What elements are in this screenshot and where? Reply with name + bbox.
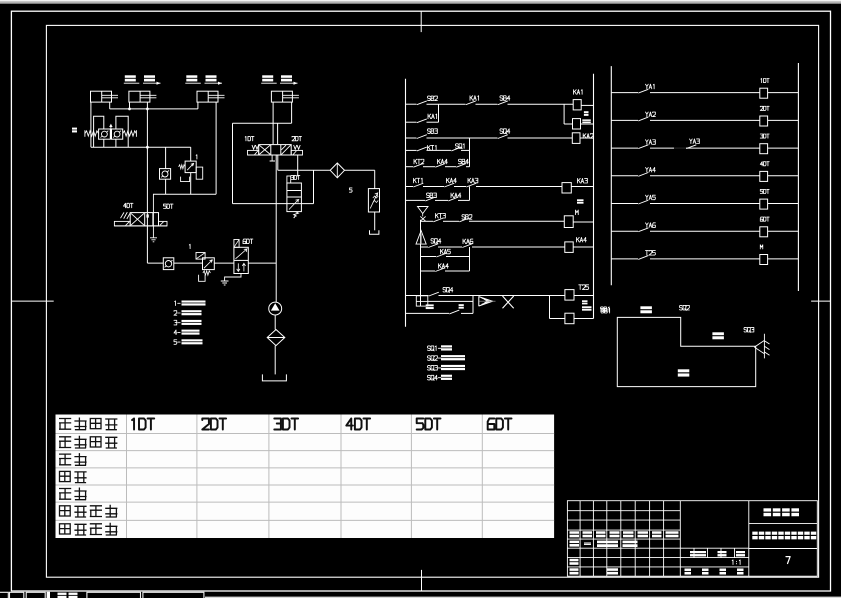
wire to reducing valve 3 xyxy=(297,155,299,176)
contact label SQ4 xyxy=(443,287,453,292)
label 2DT xyxy=(292,136,302,140)
box label 1DT xyxy=(761,79,769,83)
label SB1 xyxy=(601,307,610,312)
contact label KA1 xyxy=(470,96,479,101)
rung 5 branch a xyxy=(421,256,437,258)
contact diagonal xyxy=(435,163,445,167)
wire left box down xyxy=(232,123,234,203)
contact diagonal xyxy=(686,145,696,149)
wire relief valve down xyxy=(190,173,192,195)
table row label xyxy=(60,523,118,535)
lower bus wire xyxy=(91,146,191,148)
rung 1 xyxy=(406,103,417,105)
sequence table xyxy=(56,415,555,539)
wire main line xyxy=(147,262,163,264)
rung 2 branch a xyxy=(406,149,417,151)
output rung 1 xyxy=(611,79,798,99)
contact diagonal xyxy=(459,218,469,222)
solenoid 2DT box xyxy=(291,150,302,155)
contact diagonal xyxy=(417,119,427,123)
contact label KA4 xyxy=(439,264,449,269)
box label 6DT xyxy=(760,217,769,221)
contact label KT1 xyxy=(414,178,423,183)
label 3DT xyxy=(291,175,300,179)
contact label SB3 xyxy=(428,129,438,134)
contact diagonal xyxy=(417,135,427,139)
contact diagonal xyxy=(451,147,461,151)
table row label xyxy=(59,436,117,448)
solenoid box 4DT xyxy=(760,171,768,181)
contact label KA5 xyxy=(441,249,451,254)
label KA xyxy=(459,304,464,308)
valve 6DT top arrow xyxy=(236,249,247,259)
coil label KA3 xyxy=(578,178,588,183)
contact label T25 xyxy=(646,251,656,256)
contact label SQ4 xyxy=(500,129,510,134)
X lamp symbol xyxy=(503,296,514,308)
pressure switch down-arrow symbol xyxy=(418,207,429,214)
rung 6 xyxy=(406,295,429,297)
top centering mark xyxy=(420,11,422,32)
SQ notes text xyxy=(428,345,466,380)
label KB xyxy=(426,304,434,309)
coil label KA1 xyxy=(574,90,583,95)
contact label KT3 xyxy=(436,213,446,218)
university name xyxy=(764,508,772,516)
table row label xyxy=(60,471,87,482)
contact diagonal xyxy=(638,228,648,232)
rung 5 branch b xyxy=(421,270,436,272)
upper bus wire xyxy=(110,108,198,110)
title block xyxy=(567,501,817,577)
label 6DT xyxy=(243,239,253,244)
contact label YA1 xyxy=(646,84,655,89)
relief drain xyxy=(181,177,190,182)
wire T riser to filter branch xyxy=(277,155,279,170)
tank under relief 5 xyxy=(370,230,379,234)
label SQ3 xyxy=(744,327,754,332)
junction xyxy=(128,108,131,111)
top window edge strip xyxy=(0,0,841,1)
wire C4 right port xyxy=(291,102,293,123)
contact diagonal xyxy=(498,135,508,139)
label xyxy=(188,244,191,248)
contact label SQ4 xyxy=(431,239,441,244)
rung 6 branch b xyxy=(406,312,450,314)
reducing valve 3 xyxy=(287,183,302,212)
contact label SB2 xyxy=(462,215,472,220)
contact diagonal xyxy=(417,147,427,151)
contact diagonal xyxy=(449,310,459,314)
label 1 xyxy=(195,155,198,159)
solenoid box 6DT xyxy=(760,227,768,237)
contact label YA2 xyxy=(646,112,656,117)
output rung 3 xyxy=(611,134,798,154)
cylinder C3 xyxy=(197,91,225,102)
drain tank under valve 6DT xyxy=(225,274,241,281)
horn symbol xyxy=(479,296,493,306)
bottom centering mark xyxy=(421,570,423,591)
title block row 4 small texts xyxy=(570,531,580,537)
contact diagonal xyxy=(638,200,648,204)
suction filter diamond xyxy=(267,330,285,346)
solenoid box M xyxy=(760,255,768,265)
wire main line xyxy=(214,262,234,264)
rung 1 timer coil branch xyxy=(563,104,565,124)
table row label xyxy=(59,488,87,500)
wire relief 5 to tank xyxy=(374,212,376,230)
drain under valve 1DT/2DT xyxy=(271,155,273,161)
contact diagonal xyxy=(435,268,445,272)
relief valve pilot box xyxy=(196,167,203,179)
rung 1 selfhold branch xyxy=(406,121,417,123)
sheet number 7 xyxy=(786,557,790,564)
contact diagonal xyxy=(638,173,648,177)
wire to relief valve xyxy=(190,147,192,161)
output rung 7 xyxy=(611,245,798,265)
wire P-port drop xyxy=(277,123,279,144)
wire filter to relief 5 xyxy=(345,169,375,171)
contact diagonal xyxy=(429,292,439,296)
coil M xyxy=(573,119,581,129)
contact diagonal xyxy=(425,197,435,201)
throttle drain xyxy=(199,275,206,282)
tiny label xyxy=(72,128,77,133)
valve left position X xyxy=(259,145,270,154)
accumulator up-triangle symbol xyxy=(416,231,426,245)
wire C1 right port xyxy=(109,102,111,109)
box label 4DT xyxy=(760,162,769,166)
contact diagonal xyxy=(417,101,427,105)
output right bus xyxy=(797,63,799,291)
solenoid box 2DT xyxy=(760,116,768,126)
lock pilot line with arrow xyxy=(110,127,112,139)
contact label SB2 xyxy=(428,96,438,101)
table row label xyxy=(59,418,117,430)
contact diagonal xyxy=(444,183,454,187)
wire down to relief 5 xyxy=(374,170,376,188)
contact label KT2 xyxy=(414,159,424,164)
table headers xyxy=(132,418,511,429)
contact label SQ1 xyxy=(456,144,465,149)
filter diamond xyxy=(330,163,344,178)
label M xyxy=(584,111,589,116)
junction xyxy=(146,108,149,111)
valve right spring marks xyxy=(294,145,301,149)
label kuaijin xyxy=(640,306,652,313)
rung 3 branch xyxy=(406,199,426,201)
relay coil KA4 xyxy=(565,242,573,253)
solenoid box 1DT xyxy=(760,88,768,98)
label 5 xyxy=(350,188,353,192)
solenoid box 5DT xyxy=(760,199,768,209)
contact label YA3 xyxy=(690,139,700,144)
wire top loop xyxy=(233,122,292,124)
wire branch join xyxy=(472,296,474,314)
contact diagonal xyxy=(638,145,648,149)
label SQ2 xyxy=(680,305,690,310)
hydraulic pump xyxy=(269,302,282,315)
status bar boxes xyxy=(0,592,204,598)
wire branch to filter xyxy=(278,169,330,171)
label gongjin xyxy=(712,332,724,339)
cylinder action labels group C xyxy=(261,75,297,84)
output left bus xyxy=(610,66,612,285)
wire pump suction xyxy=(274,315,276,329)
check valve 2 body xyxy=(160,169,171,180)
wire main line xyxy=(174,262,203,264)
wire main line to pump riser xyxy=(248,262,276,264)
label D48 xyxy=(582,306,592,310)
relief valve 5 xyxy=(368,189,379,212)
solenoid box 3DT xyxy=(760,144,768,154)
valve base line xyxy=(248,154,303,156)
contact diagonal xyxy=(413,163,423,167)
wire C3 left port xyxy=(197,102,199,109)
label 4DT xyxy=(124,203,134,207)
coil M2 xyxy=(565,313,574,324)
wire C2 right port / main riser down to main line xyxy=(146,102,148,263)
coil label M xyxy=(576,210,579,215)
check valve square left xyxy=(99,129,111,139)
model tab text xyxy=(58,593,67,598)
valve base line xyxy=(114,225,167,227)
label kuaitui xyxy=(678,369,690,376)
label 5DT xyxy=(164,204,174,208)
label D xyxy=(582,119,591,123)
box label 5DT xyxy=(760,189,769,193)
flowchart return arrow xyxy=(754,334,769,359)
table row label xyxy=(59,453,87,465)
coil label KA2 xyxy=(583,134,593,139)
relay coil KA2 xyxy=(572,133,580,144)
wire main riser valve to pump xyxy=(275,155,277,302)
cylinder C4 xyxy=(271,91,299,102)
output rung 5 xyxy=(611,189,798,209)
relief valve arrow xyxy=(187,163,194,170)
right centering mark xyxy=(811,300,830,302)
contact diagonal xyxy=(638,256,648,260)
cylinder action labels group B xyxy=(185,75,222,84)
wire right loop riser xyxy=(313,170,315,203)
valve left position X xyxy=(131,213,144,225)
cylinder action labels group A xyxy=(124,75,161,84)
check valve 4 on main line xyxy=(163,258,174,270)
contact label YA6 xyxy=(646,223,656,228)
junction xyxy=(146,146,149,149)
box label M xyxy=(760,245,762,249)
main tank xyxy=(262,374,286,381)
output rung 4 xyxy=(611,162,798,182)
contact diagonal xyxy=(456,163,466,167)
coil KT xyxy=(564,216,573,228)
contact diagonal xyxy=(433,218,443,222)
contact label KA6 xyxy=(463,239,473,244)
contact label KT1 xyxy=(428,145,437,150)
solenoid 6DT box xyxy=(234,240,239,248)
contact label SB4 xyxy=(500,96,510,101)
contact label KA4 xyxy=(447,178,457,183)
drawing title xyxy=(752,532,757,540)
solenoid 1DT box xyxy=(248,150,259,155)
ladder sub rail xyxy=(420,220,422,306)
check valve square right xyxy=(112,129,123,139)
contact diagonal xyxy=(498,101,508,105)
wire to tank xyxy=(274,346,276,375)
T-line through valve to drain tank xyxy=(152,194,154,237)
title block middle texts xyxy=(690,551,706,556)
contact diagonal xyxy=(638,117,648,121)
rung 2 branch b xyxy=(406,166,414,168)
relief valve body xyxy=(185,161,196,173)
hydraulic lock block left box xyxy=(94,116,104,147)
wire C2 left port xyxy=(129,102,131,109)
box label 2DT xyxy=(760,106,769,110)
limit switch box on bus xyxy=(416,296,428,306)
cylinder C1 xyxy=(91,91,119,102)
wire to check valve 2 xyxy=(165,147,167,168)
valve right spring box xyxy=(159,221,168,226)
contact diagonal xyxy=(466,183,476,187)
contact label YA3 xyxy=(646,140,656,145)
cycle flowchart xyxy=(617,317,755,386)
contact diagonal xyxy=(428,244,438,248)
throttle/speed control valve 1 xyxy=(196,253,205,260)
cylinder C2 xyxy=(129,91,157,102)
rung 2 xyxy=(406,137,417,139)
coil T25 xyxy=(565,290,574,301)
solenoid 4DT box xyxy=(114,221,130,226)
label SB1 xyxy=(601,308,610,313)
contact label KA4 xyxy=(438,159,448,164)
contact label SB4 xyxy=(459,159,469,164)
ladder left bus xyxy=(405,79,407,327)
ladder right rail xyxy=(593,74,595,319)
valve 4DT/5DT body xyxy=(130,213,158,226)
contact label YA5 xyxy=(646,195,656,200)
wire C1 left port down to lower bus xyxy=(90,102,92,147)
relay coil KA1 xyxy=(573,100,581,110)
wire bottom loop xyxy=(233,203,314,205)
throttle spring xyxy=(203,271,211,275)
contact diagonal xyxy=(413,183,423,187)
wire C3 right port down xyxy=(215,102,217,194)
contact diagonal xyxy=(638,89,648,93)
contact diagonal xyxy=(466,101,476,105)
bottom status bar light edge xyxy=(205,597,841,598)
valve 6DT bottom arrows xyxy=(237,263,246,271)
contact diagonal xyxy=(448,197,458,201)
table row label xyxy=(60,505,118,517)
title block row 5 texts xyxy=(570,541,580,547)
relief valve spring xyxy=(179,165,186,169)
contact label KA1 xyxy=(428,114,437,119)
valve right position arrows xyxy=(281,145,290,154)
contact label YA4 xyxy=(646,167,656,172)
component list notes xyxy=(174,301,206,345)
coil label T25 xyxy=(579,285,589,290)
coil label KA4 xyxy=(577,237,587,242)
rung 6 branch a xyxy=(428,300,473,302)
reducing valve spring xyxy=(294,212,299,218)
hydraulic lock block right box xyxy=(116,116,128,147)
title block lower-left texts xyxy=(570,559,579,565)
spring left of lock xyxy=(85,131,99,136)
wire C4 left port down to valve 1DT xyxy=(272,102,274,144)
valve left spring marks xyxy=(252,145,259,149)
output rung 6 xyxy=(611,217,798,237)
coil M bottom branch xyxy=(549,296,551,319)
contact diagonal xyxy=(462,244,472,248)
label 1DT xyxy=(245,136,254,140)
wire lower collector xyxy=(153,193,216,195)
rung 4 xyxy=(421,220,434,222)
label M xyxy=(582,300,588,304)
wire check valve 2 down xyxy=(165,179,167,194)
box label 3DT xyxy=(760,134,769,138)
left centering mark xyxy=(11,300,53,302)
contact label KA3 xyxy=(468,178,478,183)
rung 3 xyxy=(406,186,414,188)
output rung 2 xyxy=(611,106,798,126)
rung 5 xyxy=(421,246,429,248)
contact label KA4 xyxy=(451,193,461,198)
solenoid slashes xyxy=(121,212,131,219)
contact label SB3 xyxy=(427,193,437,198)
valve 6DT body xyxy=(234,247,248,273)
relay coil KA3 xyxy=(562,183,571,193)
spring right of lock xyxy=(123,131,137,136)
valve 1DT/2DT body xyxy=(259,145,292,155)
contact diagonal xyxy=(436,253,446,257)
